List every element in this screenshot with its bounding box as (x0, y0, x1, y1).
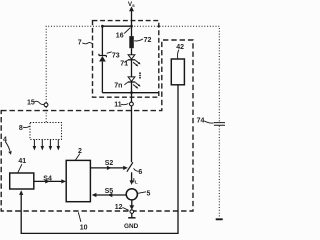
dotted line from node 16 to capacitor 74 (132, 26, 220, 218)
svg-text:8: 8 (19, 125, 23, 132)
label pointer 2 (75, 154, 80, 161)
label pointer 41 (18, 164, 22, 173)
svg-text:73: 73 (112, 52, 120, 59)
wire resistor to LED chain (131, 26, 133, 93)
arrowheads sensor 8 down (33, 146, 37, 151)
dotted box 8 (sensor IC) (30, 123, 62, 140)
label pointer 7n (124, 82, 127, 84)
arrowhead into node 12 down (129, 205, 134, 210)
resistor R72 body (filled) (129, 36, 134, 48)
svg-text:5: 5 (147, 191, 151, 198)
sensor 8 arrow shafts (34, 140, 58, 147)
wire source to node 12 (131, 200, 133, 206)
arrowhead Vs up (129, 6, 134, 11)
resistor R42 body (171, 59, 184, 85)
junction dot box7 edge crossing (158, 25, 160, 27)
label pointer 10 (78, 212, 81, 222)
zener diode 73 (99, 54, 107, 58)
svg-text:11: 11 (114, 101, 122, 108)
wire R42 return path to block 41 (21, 85, 178, 234)
label pointer 71 (124, 60, 127, 62)
arrowhead S5 mid (108, 193, 113, 197)
svg-text:42: 42 (176, 44, 184, 51)
svg-text:71: 71 (120, 60, 128, 67)
junction dot node 16 (130, 25, 133, 28)
ground tick bottom right (216, 218, 223, 220)
label pointer 74 (204, 121, 213, 123)
svg-text:7n: 7n (114, 82, 122, 89)
node terminal 12 (130, 210, 134, 214)
capacitor C74 plates (214, 123, 225, 126)
wire node 12 to GND arrow (131, 214, 133, 218)
svg-text:41: 41 (18, 158, 26, 165)
svg-text:12: 12 (115, 204, 123, 211)
arrowhead IL down (130, 180, 134, 185)
wire S5 feedback line (96, 194, 126, 196)
LED 71 light arrow shafts (133, 60, 139, 65)
wire transistor to current source (131, 172, 133, 181)
label pointer 42 (178, 50, 179, 59)
arrowhead S4 right (61, 179, 66, 183)
svg-text:15: 15 (27, 99, 35, 106)
svg-text:16: 16 (116, 33, 124, 40)
LED 71 body (128, 55, 135, 60)
wire node 11 column (131, 93, 133, 163)
GND bar (128, 217, 135, 219)
transistor Q6 blade (127, 162, 133, 171)
block 41 (10, 173, 34, 189)
svg-text:S5: S5 (105, 188, 114, 195)
zener diode 73 triangle (99, 56, 106, 62)
arrowhead S2 mid (107, 166, 112, 170)
label 4 arrow (5, 141, 10, 150)
wire top node 16 horizontal (102, 25, 131, 27)
wire Vs supply stem (131, 11, 133, 27)
label pointer 5 (138, 192, 146, 194)
node terminal 15 (44, 103, 48, 107)
svg-text:6: 6 (138, 169, 142, 176)
current source 5 circle (126, 189, 137, 200)
label pointer 15 (34, 101, 44, 104)
svg-text:74: 74 (197, 118, 205, 125)
LED 7n body (128, 77, 135, 82)
svg-text:S2: S2 (105, 160, 114, 167)
arrowhead S5 left (92, 193, 97, 197)
wire bottom inner node (102, 92, 158, 94)
label pointer 6 (134, 168, 139, 171)
arrowhead into block 41 up (19, 190, 23, 195)
arrowhead S2 right (123, 166, 128, 170)
LED 7n light arrow shafts (133, 83, 139, 88)
wire zener branch vertical (101, 26, 103, 93)
label pointer 73 (107, 52, 112, 54)
wire S2 control line (90, 167, 124, 169)
arrowheads LED 7n light (138, 84, 141, 87)
svg-text:10: 10 (80, 225, 88, 232)
label pointer 8 (23, 126, 30, 127)
svg-text:S4: S4 (43, 176, 52, 183)
block 2 (66, 160, 90, 201)
dotted sense line from node 16 to terminal 15 and block 8 (46, 26, 102, 122)
wire S4 line (34, 180, 62, 182)
svg-text:GND: GND (124, 223, 139, 230)
outer dashed box 10 boundary (1, 40, 193, 211)
svg-text:4: 4 (3, 137, 7, 144)
label pointer 12 (122, 207, 128, 210)
svg-text:2: 2 (78, 148, 82, 155)
svg-text:72: 72 (144, 37, 152, 44)
dots between LEDs (series continuation) (139, 72, 141, 74)
label pointer 11 (121, 104, 128, 105)
label pointer 72 (134, 39, 143, 41)
arrowheads LED 71 light (138, 62, 141, 65)
label pointer 7 (82, 43, 92, 44)
label pointer 16 (124, 28, 130, 34)
dashed box 7 (LED module) (93, 21, 159, 98)
junction dot node 16-zener (101, 25, 104, 28)
svg-text:7: 7 (78, 40, 82, 47)
junction dot bottom node (130, 91, 133, 94)
node terminal 11 (130, 102, 134, 106)
arrowhead S4 mid (45, 179, 50, 183)
